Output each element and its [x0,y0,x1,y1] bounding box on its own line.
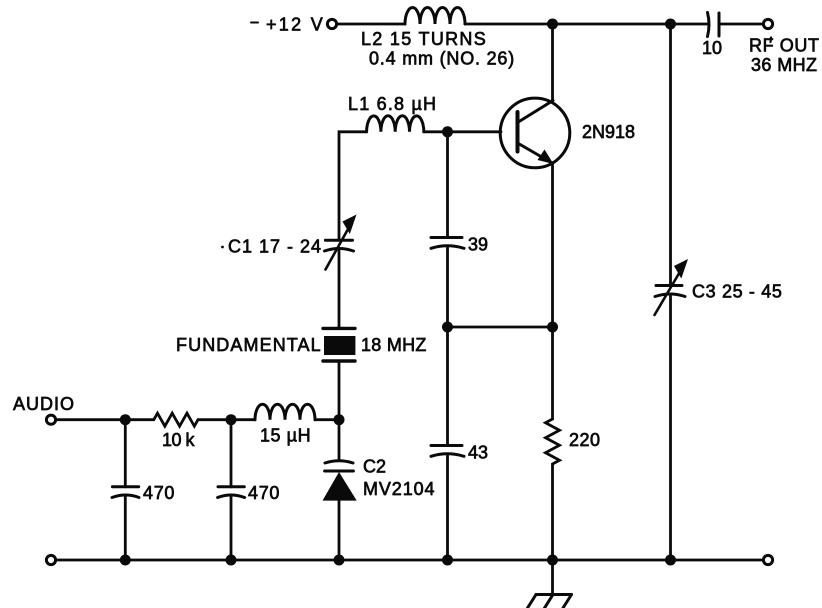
scan artifact dot before C1 label [221,246,224,249]
2N918 label [582,122,635,142]
svg-text:0.4 mm (NO. 26): 0.4 mm (NO. 26) [369,49,515,69]
wire: R 220 to bottom rail [551,464,554,560]
svg-text:C2: C2 [363,457,386,477]
svg-text:470: 470 [248,483,280,503]
FUNDAMENTAL label [176,335,322,355]
scan artifact tick in RF OUT [769,38,772,43]
junction: mid node right [547,322,558,333]
junction: top rail / C3 [665,19,676,30]
MV2104 label [363,479,435,499]
junction: bottom rail / ground stub [547,555,558,566]
capacitor 470 (second) [218,420,245,560]
39 value label [468,235,488,255]
wire: C3 column from top rail [669,24,672,286]
svg-text:18 MHZ: 18 MHZ [361,335,427,355]
wire: audio terminal to R1 [56,418,154,421]
AUDIO label [13,394,75,414]
crystal Y1 FUNDAMENTAL 18 MHZ [323,328,355,361]
svg-text:2N918: 2N918 [582,122,635,142]
wire: emitter node down to R 220 [551,327,554,419]
junction: bottom rail / 470 first [120,555,131,566]
capacitor 470 (first) [112,420,139,560]
capacitor 43 [431,446,464,457]
svg-text:10: 10 [702,38,722,58]
C2 label [363,457,386,477]
wire: C1 to crystal [338,251,341,328]
18 MHZ label [361,335,427,355]
svg-text:470: 470 [143,483,175,503]
inductor 15 uH [255,404,315,420]
AUDIO input terminal [46,415,55,424]
svg-text:AUDIO: AUDIO [13,394,75,414]
wire: R1 to L3 [198,418,255,421]
RF OUT label [749,36,820,56]
resistor 10 k [154,413,198,426]
+12V label [266,15,325,35]
transistor Q1 2N918 [500,98,570,168]
svg-text:10 k: 10 k [162,430,196,450]
wire: mid node to emitter column [448,326,553,329]
chassis ground symbol [528,595,572,608]
svg-text:C3 25 - 45: C3 25 - 45 [692,282,783,302]
svg-text:L1 6.8 µH: L1 6.8 µH [348,94,437,114]
wire: node to coupling cap [671,23,708,26]
junction: bottom rail / cap 43 [442,555,453,566]
wire: bottom rail [56,559,764,562]
junction: bottom rail / C3 [665,555,676,566]
resistor 220 [546,419,560,464]
wire: collector up to top rail [551,24,554,101]
wire: crystal down to audio node [338,361,341,420]
svg-text:36 MHZ: 36 MHZ [751,55,817,75]
C1 value label [228,237,322,257]
wire: varactor to bottom rail [338,501,341,560]
wire: base node down to cap 39 [446,132,449,238]
470 value label (first) [143,483,175,503]
variable capacitor C3 [655,259,689,315]
junction: mid node left [442,322,453,333]
svg-text:L2 15 TURNS: L2 15 TURNS [361,29,487,49]
RF OUT terminal [763,19,772,28]
10 k value label [162,430,196,450]
wire: cap 43 to bottom rail [446,456,449,560]
+12V terminal [327,19,336,28]
svg-text:43: 43 [468,443,488,463]
wire: base node to transistor base [448,130,502,133]
svg-text:39: 39 [468,235,488,255]
svg-text:FUNDAMENTAL: FUNDAMENTAL [176,335,322,355]
junction: bottom rail / varactor [334,555,345,566]
wire: node down to varactor C2 [338,420,341,459]
junction: node B [226,414,237,425]
svg-text:C1 17 - 24: C1 17 - 24 [228,237,322,257]
capacitor 10 value label [702,38,722,58]
220 value label [569,430,601,450]
wire: L1 left corner down to C1 [339,132,367,240]
470 value label (second) [248,483,280,503]
ground bus right terminal [763,555,772,564]
capacitor 10 (output coupling) [708,13,720,37]
inductor L1 [367,116,424,132]
junction: varactor node [334,414,345,425]
wire: ground stub [551,560,554,594]
wire: cap to RF OUT terminal [719,23,763,26]
svg-text:RF OUT: RF OUT [749,36,820,56]
junction: top rail / collector [547,19,558,30]
wire: mid node down to cap 43 [446,327,449,446]
ground bus left terminal [46,555,55,564]
variable capacitor C1 [325,215,357,270]
scan artifact dash before +12V [251,22,258,24]
varactor diode C2 MV2104 [323,461,357,501]
capacitor 39 [431,238,464,249]
junction: bottom rail / 470 second [226,555,237,566]
inductor L2 [405,8,465,25]
wire: C3 to bottom rail [669,297,672,561]
wire: L1 to base node [424,130,448,133]
43 value label [468,443,488,463]
wire: L2 to node at collector column [465,23,553,26]
wire: top rail to C3 column [553,23,671,26]
svg-text:15 µH: 15 µH [260,426,311,446]
svg-text:MV2104: MV2104 [363,479,435,499]
junction: audio node A [120,414,131,425]
C3 value label [692,282,783,302]
15 uH value label [260,426,311,446]
wire: emitter down to node row [551,163,554,328]
wire: L3 to varactor node [315,418,339,421]
wire: cap 39 to mid node [446,248,449,327]
svg-text:220: 220 [569,430,601,450]
wire: +12V terminal to L2 [337,23,405,26]
L2 value label: 15 TURNS [361,29,487,49]
junction: base node [442,126,453,137]
L2 wire label: 0.4 mm (NO. 26) [369,49,515,69]
L1 value label [348,94,437,114]
36 MHZ label [751,55,817,75]
svg-text:+12 V: +12 V [266,15,325,35]
